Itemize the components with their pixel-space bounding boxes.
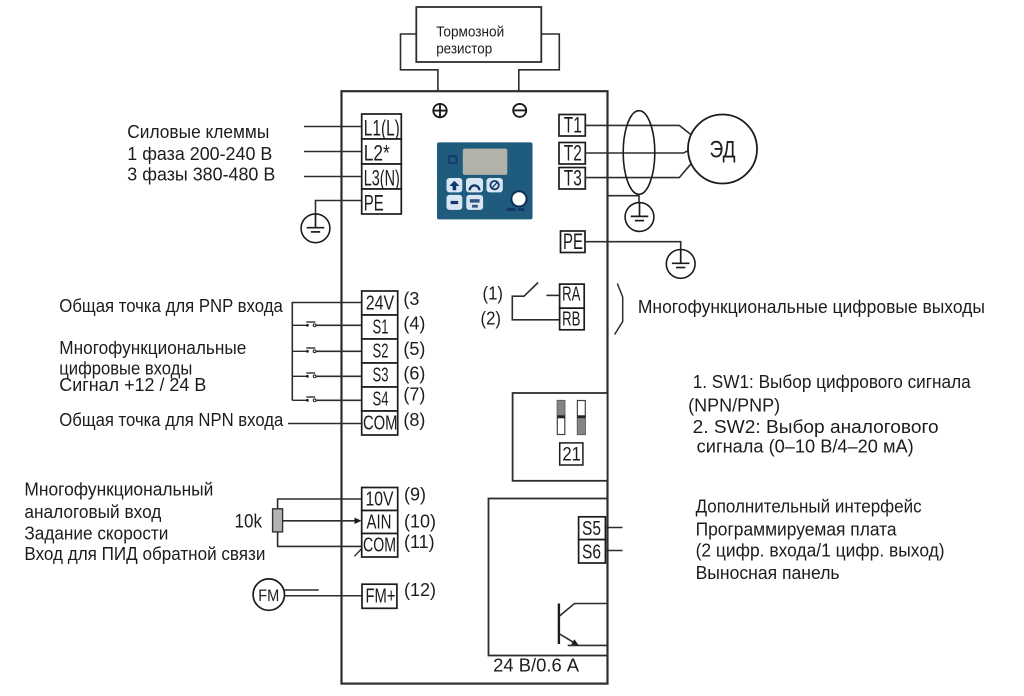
svg-text:2. SW2: Выбор аналогового: 2. SW2: Выбор аналогового xyxy=(693,417,939,437)
terminal PE output xyxy=(561,229,586,254)
svg-text:10k: 10k xyxy=(235,512,263,533)
svg-text:Общая точка для NPN входа: Общая точка для NPN входа xyxy=(59,410,284,430)
svg-text:T2: T2 xyxy=(564,141,582,166)
svg-text:L2*: L2* xyxy=(364,140,390,165)
svg-text:S2: S2 xyxy=(373,341,389,363)
DC minus terminal symbol xyxy=(513,104,526,117)
enclosure drive outline xyxy=(342,91,608,683)
svg-text:сигнала (0–10 В/4–20 мА): сигнала (0–10 В/4–20 мА) xyxy=(697,437,914,457)
svg-text:L1(L): L1(L) xyxy=(364,115,400,140)
svg-text:(12): (12) xyxy=(404,580,436,600)
terminal S4 digital xyxy=(362,387,398,411)
wire S5 stub xyxy=(605,527,622,529)
pin number (8) xyxy=(403,410,425,430)
svg-text:L3(N): L3(N) xyxy=(364,165,400,190)
wire pot to 10V xyxy=(278,499,362,509)
terminal AIN analog xyxy=(362,511,398,534)
svg-text:(11): (11) xyxy=(404,532,435,552)
svg-text:(5): (5) xyxy=(403,339,425,359)
terminal S6 xyxy=(579,540,606,564)
switch contact S1 wire xyxy=(292,322,361,327)
svg-text:S5: S5 xyxy=(582,518,601,540)
terminal RA xyxy=(560,283,585,308)
svg-text:S4: S4 xyxy=(373,389,389,411)
svg-text:T3: T3 xyxy=(564,166,582,191)
DIP label 21 xyxy=(560,443,583,466)
label NPN input xyxy=(59,410,284,430)
terminal PE xyxy=(362,189,402,215)
svg-text:(7): (7) xyxy=(403,384,425,404)
wire 24V bus xyxy=(292,303,361,401)
svg-text:Вход для ПИД обратной связи: Вход для ПИД обратной связи xyxy=(24,544,265,564)
svg-text:PE: PE xyxy=(563,229,583,254)
motor ED xyxy=(688,115,757,184)
terminal FM+ xyxy=(362,584,397,608)
svg-text:Сигнал +12 / 24 В: Сигнал +12 / 24 В xyxy=(59,375,206,395)
label 10k xyxy=(235,512,263,533)
switch contact S3 wire xyxy=(292,373,361,378)
relay switch xyxy=(512,283,559,320)
terminal T3 xyxy=(559,166,585,191)
label PNP input xyxy=(59,296,283,316)
DIP switch SW2 xyxy=(577,401,585,435)
svg-text:COM: COM xyxy=(363,535,396,557)
terminal L3(N) xyxy=(362,164,402,190)
terminal RB xyxy=(560,308,585,330)
wire COM digital xyxy=(288,423,362,425)
frequency meter FM xyxy=(253,579,284,610)
svg-text:T1: T1 xyxy=(564,113,582,138)
potentiometer 10k xyxy=(273,509,283,532)
switch contact S4 wire xyxy=(292,397,361,402)
svg-text:ЭД: ЭД xyxy=(710,137,736,164)
shielded cable ellipse xyxy=(623,111,655,195)
label (1) xyxy=(483,283,504,303)
wire wiper to AIN xyxy=(283,518,362,524)
DIP switch box xyxy=(513,393,608,481)
DIP switch SW1 xyxy=(557,401,565,435)
svg-text:(4): (4) xyxy=(403,313,425,333)
svg-text:Силовые клеммы: Силовые клеммы xyxy=(127,122,269,142)
terminal T1 xyxy=(559,113,585,138)
wire to L2 xyxy=(304,151,362,153)
terminal S2 digital xyxy=(362,339,398,363)
wire S6 stub xyxy=(605,550,622,552)
svg-text:(9): (9) xyxy=(404,485,426,505)
terminal S5 xyxy=(579,517,606,540)
svg-text:Многофункциональный: Многофункциональный xyxy=(24,480,213,500)
svg-text:(2 цифр. входа/1 цифр. выход): (2 цифр. входа/1 цифр. выход) xyxy=(696,540,945,560)
wire shield to ground xyxy=(608,194,640,202)
svg-text:(NPN/PNP): (NPN/PNP) xyxy=(688,396,780,416)
keypad panel xyxy=(437,142,533,219)
svg-text:Дополнительный интерфейс: Дополнительный интерфейс xyxy=(696,496,922,516)
wire PE output to ground xyxy=(585,242,681,250)
wire T1 to motor xyxy=(585,125,691,134)
svg-text:S3: S3 xyxy=(373,365,389,387)
pin number (9) xyxy=(404,485,426,505)
option card box xyxy=(489,499,608,656)
wire FM to FM+ xyxy=(284,590,362,596)
switch contact S2 wire xyxy=(292,348,361,353)
terminal T2 xyxy=(559,141,585,166)
svg-text:RA: RA xyxy=(562,283,581,305)
svg-text:(8): (8) xyxy=(403,410,425,430)
wire brake resistor right to DC- xyxy=(519,34,560,92)
wire PE left xyxy=(316,201,362,215)
label digital inputs xyxy=(59,338,246,395)
svg-text:S1: S1 xyxy=(373,317,389,339)
svg-text:(6): (6) xyxy=(403,363,425,383)
svg-text:Многофункциональные цифровые в: Многофункциональные цифровые выходы xyxy=(638,297,985,317)
svg-text:RB: RB xyxy=(562,308,580,330)
svg-text:Программируемая плата: Программируемая плата xyxy=(696,519,898,539)
note option interface xyxy=(696,496,945,583)
terminal S1 digital xyxy=(362,315,398,339)
svg-text:Выносная панель: Выносная панель xyxy=(696,563,840,583)
svg-text:3 фазы 380-480 В: 3 фазы 380-480 В xyxy=(127,164,275,184)
svg-text:(1): (1) xyxy=(483,283,504,303)
pin number (3 xyxy=(403,289,419,309)
terminal COM analog xyxy=(362,534,398,558)
pin number (5) xyxy=(403,339,425,359)
svg-text:1. SW1: Выбор цифрового сигнал: 1. SW1: Выбор цифрового сигнала xyxy=(693,372,972,392)
terminal COM digital xyxy=(362,411,398,435)
label power terminals xyxy=(127,122,275,184)
svg-text:21: 21 xyxy=(562,445,581,466)
svg-text:(3: (3 xyxy=(403,289,419,309)
pin number (7) xyxy=(403,384,425,404)
terminal S3 digital xyxy=(362,363,398,387)
ground cable shield xyxy=(625,203,654,232)
terminal L2* xyxy=(362,139,402,165)
pin number (12) xyxy=(404,580,436,600)
svg-text:10V: 10V xyxy=(366,489,395,511)
svg-text:FM: FM xyxy=(258,586,279,605)
label digital outputs xyxy=(638,297,985,317)
brace bracket xyxy=(615,284,623,335)
transistor Q1 open collector xyxy=(559,604,608,646)
svg-text:аналоговый вход: аналоговый вход xyxy=(24,502,161,522)
svg-text:PE: PE xyxy=(364,190,384,215)
wire brake resistor left to DC+ xyxy=(401,34,438,92)
wire to L1 xyxy=(304,126,362,128)
svg-text:Тормозной: Тормозной xyxy=(436,24,504,41)
pin number (4) xyxy=(403,313,425,333)
note SW1 SW2 xyxy=(688,372,972,457)
svg-text:AIN: AIN xyxy=(367,512,392,534)
wire pot to COM analog xyxy=(278,532,364,556)
svg-text:24V: 24V xyxy=(366,293,395,315)
pin number (11) xyxy=(404,532,435,552)
svg-text:S6: S6 xyxy=(582,541,601,563)
label (2) xyxy=(481,309,502,329)
svg-text:FM+: FM+ xyxy=(366,586,396,608)
ground input PE xyxy=(301,214,330,243)
svg-text:(10): (10) xyxy=(404,512,436,532)
svg-text:24 В/0.6 А: 24 В/0.6 А xyxy=(493,656,579,676)
terminal 24V digital xyxy=(362,291,398,315)
wire T2 to motor xyxy=(585,151,688,153)
pin number (10) xyxy=(404,512,436,532)
svg-text:COM: COM xyxy=(363,413,398,435)
svg-text:(2): (2) xyxy=(481,309,502,329)
terminal L1(L) xyxy=(362,114,402,140)
label 24V 0.6A xyxy=(493,656,579,676)
svg-text:1 фаза 200-240 В: 1 фаза 200-240 В xyxy=(127,144,272,164)
label analog input xyxy=(24,480,265,564)
ground output PE xyxy=(666,250,695,279)
terminal 10V analog xyxy=(362,488,398,511)
svg-text:резистор: резистор xyxy=(436,41,492,58)
svg-text:Многофункциональные: Многофункциональные xyxy=(59,338,246,358)
svg-text:Задание скорости: Задание скорости xyxy=(24,523,168,543)
DC plus terminal symbol xyxy=(433,104,446,117)
braking resistor box BR xyxy=(416,7,541,62)
svg-text:Общая точка для PNP входа: Общая точка для PNP входа xyxy=(59,296,283,316)
wire T3 to motor xyxy=(585,164,691,178)
pin number (6) xyxy=(403,363,425,383)
wire to L3 xyxy=(304,176,362,178)
